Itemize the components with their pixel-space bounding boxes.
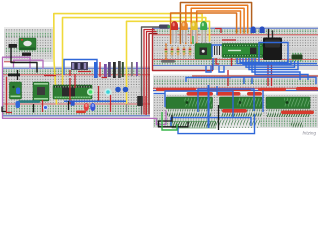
connector block bbox=[159, 25, 170, 29]
black part left of module bbox=[9, 44, 18, 48]
LED D1 red bbox=[171, 21, 178, 43]
red wire R1 along BB-C left bbox=[153, 29, 213, 71]
orange stub bbox=[165, 44, 167, 60]
orange loop O4 bbox=[197, 11, 241, 44]
left column small modules bbox=[8, 74, 22, 109]
IC U1 bbox=[166, 97, 213, 109]
blue framed component top of BB-B bbox=[64, 60, 97, 77]
IC row on BB-E bbox=[166, 97, 310, 109]
breadboard BB-D (right power strip) bbox=[153, 75, 318, 93]
resistor R3 bbox=[177, 45, 180, 58]
orange loop O2 bbox=[186, 5, 248, 43]
IC U2 bbox=[220, 97, 263, 109]
module green square on BB-A bbox=[19, 38, 36, 50]
module M2 long green PCB on BB-B bbox=[53, 85, 92, 99]
LED D2 orange bbox=[181, 21, 188, 43]
orange loop O5 bbox=[171, 13, 237, 44]
gray ribbon wire bbox=[142, 27, 160, 114]
breadboard BB-C (top-right) bbox=[152, 27, 318, 71]
breadboard BB-A (top-left mini board) bbox=[4, 27, 53, 62]
breadboard BB-E (right IC board) bbox=[153, 94, 318, 129]
LEDs on BB-C bbox=[171, 21, 207, 43]
nano green board bbox=[222, 44, 265, 58]
blue caps on BB-C top bbox=[251, 26, 265, 33]
black buzzer wires bbox=[268, 30, 270, 38]
red wires left part bbox=[7, 74, 147, 115]
red ribbon wires bbox=[144, 30, 154, 115]
button module on BB-C bbox=[195, 44, 212, 60]
purple loop P1 bbox=[3, 57, 167, 124]
resistor R1 bbox=[165, 45, 168, 58]
buzzer black box bbox=[263, 38, 282, 61]
green wire bottom right bbox=[162, 112, 177, 130]
hatch strips below ICs bbox=[167, 110, 212, 117]
wire red left rail bbox=[7, 77, 13, 113]
module M1 on BB-B (sensor) bbox=[33, 82, 49, 101]
yellow Y3 bbox=[127, 21, 210, 105]
tiny fan bottom right bbox=[291, 123, 303, 128]
resistor R2 bbox=[171, 45, 174, 58]
blue wire bundle from nano to right bbox=[186, 43, 317, 85]
IC U3 bbox=[266, 97, 310, 109]
black L bottom-left corner bbox=[2, 107, 7, 112]
blue loops around ICs bbox=[154, 85, 255, 134]
dark green bar right bbox=[292, 53, 303, 62]
blue horizontal wire on BB-B channel bbox=[64, 100, 126, 102]
black part below module bbox=[22, 53, 31, 56]
LED D4 green bbox=[200, 21, 207, 43]
purple loop P2 bbox=[14, 60, 44, 68]
red jumper bars bbox=[156, 87, 318, 114]
red wires mid right bbox=[215, 29, 272, 87]
breadboard BB-B (bottom-left) bbox=[2, 66, 150, 118]
extra small bits bottom-left bbox=[42, 100, 44, 112]
wires layer 1 bbox=[2, 3, 273, 125]
black wire left bbox=[11, 48, 37, 73]
white antenna part with blue frame bbox=[212, 45, 224, 58]
resistor R4 bbox=[183, 45, 186, 58]
svg-text:fritzing: fritzing bbox=[303, 131, 317, 136]
orange loop O3 bbox=[191, 8, 244, 43]
yellow Y1 bbox=[54, 14, 202, 104]
yellow Y2 bbox=[63, 18, 206, 90]
orange loop O1 outer bbox=[180, 3, 251, 44]
black wires bottom right bbox=[159, 105, 219, 130]
glowing LEDs on BB-B bbox=[84, 88, 112, 111]
bottom DIP + fan bbox=[172, 122, 216, 129]
blue caps on BB-B bbox=[115, 87, 121, 93]
long red wire between boards bbox=[192, 75, 318, 77]
dark IC on BB-B right bbox=[137, 96, 143, 106]
vertical bars cluster on BB-B bbox=[94, 61, 138, 78]
gray bar bottom-left of LEDs bbox=[161, 60, 175, 63]
resistor R5 bbox=[189, 45, 192, 58]
teal bar on BB-B bbox=[18, 100, 40, 103]
LED D3 yellow bbox=[191, 21, 198, 43]
resistors under LEDs bbox=[165, 45, 192, 58]
